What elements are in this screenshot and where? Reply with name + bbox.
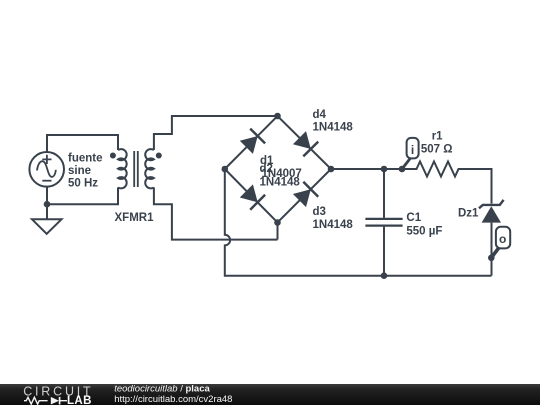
diode d3 (bottom vertex to right vertex): [293, 182, 318, 207]
label XFMR1: [115, 212, 155, 224]
svg-text:fuente: fuente: [68, 153, 103, 165]
transformer primary phase dot: [110, 153, 116, 159]
node bridge top vertex: [274, 113, 281, 120]
flag o tail: [491, 248, 499, 258]
svg-text:50 Hz: 50 Hz: [68, 178, 98, 190]
svg-text:1N4148: 1N4148: [313, 219, 354, 231]
footer text line 1: [114, 383, 210, 394]
svg-text:d3: d3: [313, 206, 326, 218]
svg-text:d2: d2: [260, 163, 273, 175]
node bridge right vertex: [328, 166, 335, 173]
CircuitLab logo LAB: [67, 395, 92, 407]
transformer XFMR1 secondary coil: [145, 149, 154, 188]
node bridge bottom vertex: [274, 219, 281, 226]
svg-text:r1: r1: [432, 131, 443, 143]
svg-text:1N4148: 1N4148: [260, 176, 301, 188]
transformer XFMR1 primary coil: [118, 149, 127, 188]
node capacitor bottom: [381, 272, 388, 279]
wire bridge right vertex to resistor node: [331, 168, 402, 170]
CircuitLab logo CIRCUIT: [23, 384, 93, 398]
diode d2 (left vertex to bottom vertex): [240, 184, 265, 209]
capacitor C1: [365, 169, 402, 276]
node resistor input: [399, 166, 406, 173]
label d3 1N4148: [313, 206, 354, 231]
wire bridge edges: [225, 116, 331, 223]
svg-text:teodiocircuitlab / placa: teodiocircuitlab / placa: [114, 383, 210, 394]
flag i: [407, 138, 419, 159]
wire bridge left vertex down with hop and bottom rail: [225, 169, 492, 276]
label C1 550 uF: [406, 212, 442, 238]
CircuitLab logo squiggle resistor and diode: [24, 397, 67, 405]
label r1 507 ohm: [421, 131, 453, 156]
node bridge left vertex: [222, 166, 229, 173]
flag o: [496, 227, 510, 249]
svg-text:XFMR1: XFMR1: [115, 212, 155, 224]
transformer secondary phase dot: [156, 153, 162, 159]
footer text line 2: [114, 394, 232, 405]
zener diode Dz1: [479, 200, 504, 276]
voltage source V1 fuente: [29, 152, 64, 187]
svg-text:sine: sine: [68, 165, 91, 177]
label fuente sine 50 Hz: [68, 153, 103, 190]
wire source bottom to ground: [46, 187, 48, 220]
resistor r1: [402, 162, 492, 204]
wire bridge bottom vertex lead: [277, 223, 279, 240]
label d2 1N4148: [260, 163, 301, 188]
ground: [32, 219, 62, 234]
diode d4 (top vertex to right vertex): [293, 131, 318, 156]
flag i tail: [402, 158, 411, 169]
node flag o: [488, 254, 495, 261]
svg-text:http://circuitlab.com/cv2ra48: http://circuitlab.com/cv2ra48: [114, 394, 232, 405]
wire source top loop to primary top lead: [47, 135, 118, 152]
svg-text:550 µF: 550 µF: [406, 226, 442, 238]
svg-text:d4: d4: [313, 109, 327, 121]
transformer core: [134, 151, 138, 187]
svg-text:o: o: [499, 232, 506, 246]
diode d1 (left vertex to top vertex): [240, 129, 265, 154]
svg-text:1N4148: 1N4148: [313, 122, 354, 134]
svg-text:C1: C1: [406, 212, 421, 224]
footer black bar: [0, 384, 540, 405]
label d4 1N4148: [313, 109, 354, 134]
node capacitor top: [381, 166, 388, 173]
svg-text:LAB: LAB: [67, 395, 92, 405]
wire secondary top lead to bridge top vertex: [154, 116, 278, 150]
svg-text:Dz1: Dz1: [458, 208, 479, 220]
node junction at source bottom: [44, 201, 51, 208]
label d1 1N4007: [260, 155, 302, 180]
label Dz1: [458, 208, 479, 220]
wire primary bottom lead to source bottom node: [47, 187, 118, 204]
svg-text:507 Ω: 507 Ω: [421, 144, 453, 156]
svg-text:i: i: [411, 143, 414, 157]
wire secondary bottom lead to bridge bottom net: [154, 187, 278, 239]
